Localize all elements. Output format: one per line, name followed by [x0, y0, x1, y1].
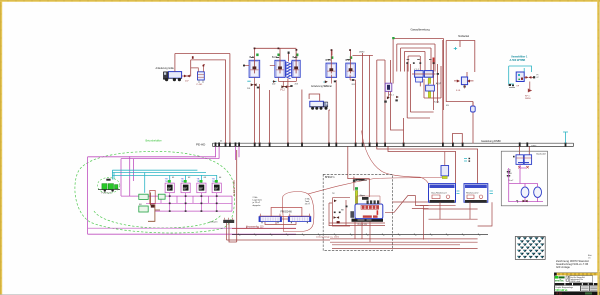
site boundary line black — [232, 233, 488, 235]
heating lines bottom — [227, 222, 478, 249]
BHKW small fittings — [334, 200, 348, 224]
revision cells — [581, 286, 590, 292]
pipe truck TK1 fill line — [175, 54, 230, 77]
CHP engine M1 — [350, 180, 383, 222]
BHKW internal loop — [329, 198, 385, 226]
bottom page line — [0, 293, 600, 295]
right edge small text — [588, 254, 592, 259]
svg-text:Anlieferung Substrat: Anlieferung Substrat — [311, 85, 332, 88]
page edge ruler right — [597, 0, 599, 295]
gas storage small valves — [516, 200, 528, 203]
nested gas loop piping — [391, 39, 444, 131]
gas balloon G1 — [521, 187, 529, 198]
svg-text:Leitungslänge ca. 110m: Leitungslänge ca. 110m — [316, 236, 339, 239]
dark data row — [555, 283, 565, 285]
gas storage tanks top — [516, 155, 532, 169]
exhaust heat exchanger — [355, 191, 357, 204]
svg-text:Heizkessel 2: Heizkessel 2 — [466, 192, 479, 194]
svg-text:V-12: V-12 — [280, 89, 285, 91]
address cell — [570, 276, 593, 283]
T1 bottom fittings — [247, 78, 259, 89]
tank interconnect pipe — [265, 219, 296, 225]
cyan tick flare — [454, 47, 457, 50]
cyan supply lines — [112, 170, 216, 193]
storage tank TL1 — [259, 214, 282, 224]
logo cell — [555, 276, 558, 279]
dosing unit row labels — [172, 177, 222, 179]
vessel B1 (unloading filter) — [191, 65, 205, 86]
bottom black bar — [554, 292, 600, 295]
svg-text:Kond.: Kond. — [434, 102, 440, 104]
project cell — [555, 286, 580, 292]
magenta distribution wiring — [121, 193, 232, 211]
dosing unit D2 — [181, 183, 190, 193]
page edge ruler top — [0, 0, 600, 2]
gas storage magenta piping — [509, 164, 543, 201]
red boundary extension to BHKW — [308, 178, 443, 195]
label row TB — [165, 178, 215, 183]
label Umweltfilter — [510, 56, 529, 62]
svg-text:25 m³: 25 m³ — [305, 203, 311, 206]
brown discharge pipe — [148, 193, 160, 222]
riser to Sammelschacht — [229, 150, 237, 242]
svg-text:2 Stk.: 2 Stk. — [253, 196, 259, 199]
svg-text:Substrat DN65: Substrat DN65 — [233, 180, 236, 196]
dosing unit green caps — [168, 180, 218, 183]
cyan sensor ticks boilers — [457, 191, 493, 194]
activated carbon filter F2 — [426, 78, 442, 98]
svg-text:2 Stk.: 2 Stk. — [305, 197, 311, 200]
pipe to flare — [444, 39, 475, 111]
svg-text:DN80: DN80 — [359, 52, 365, 54]
svg-text:Gasleitung DN80: Gasleitung DN80 — [481, 139, 501, 143]
svg-text:GIF Anlage: GIF Anlage — [556, 265, 570, 269]
condensate pot — [471, 102, 476, 113]
pipes below bus right — [377, 146, 530, 183]
feed hopper G1 — [139, 194, 148, 212]
svg-text:KF 1: KF 1 — [525, 95, 530, 97]
svg-text:Anlieferung Gülle: Anlieferung Gülle — [156, 67, 175, 70]
red property boundary cloud — [282, 192, 314, 232]
reactor tank T3 — [292, 50, 300, 77]
green dashed boundary inner — [94, 211, 221, 228]
svg-text:BF: BF — [199, 186, 203, 190]
gas storage fittings — [507, 156, 515, 177]
cyan marks mid right — [464, 159, 467, 162]
reactor tank T4 — [326, 50, 337, 77]
svg-text:F-01: F-01 — [456, 90, 461, 92]
svg-text:P 2.1: P 2.1 — [389, 94, 395, 96]
svg-text:Betonbehälter: Betonbehälter — [146, 138, 162, 142]
micro labels scatter — [220, 52, 449, 143]
main gas bus header — [213, 143, 574, 146]
pipe gas feed to engine — [348, 146, 370, 197]
gas train dark bar — [355, 179, 364, 181]
pipe risers from tank row to bus — [226, 40, 474, 143]
gas cooler double vessel U1 — [412, 71, 436, 82]
T5 bottom fittings — [350, 75, 356, 83]
flare unit A1 — [454, 77, 474, 92]
bus tick fittings — [215, 142, 567, 146]
reactor tank T5 — [346, 50, 356, 77]
svg-text:Gasfackel: Gasfackel — [536, 153, 546, 155]
gas blower P2 — [384, 83, 399, 103]
svg-text:BF: BF — [167, 186, 171, 190]
svg-text:Abwasserltg. 110: Abwasserltg. 110 — [246, 226, 264, 229]
T1 side nozzle — [243, 65, 249, 67]
top header pipe over T4 T5 — [332, 50, 373, 56]
dosing unit D4 — [212, 183, 221, 193]
red unit in biozone — [150, 190, 155, 207]
svg-text:P-101: P-101 — [197, 84, 204, 86]
svg-text:DN65: DN65 — [531, 146, 537, 148]
red hose curve from bus area — [362, 131, 429, 184]
svg-text:07: 07 — [537, 77, 539, 79]
reactor tank T2 — [272, 48, 285, 77]
storage tank TL2 — [288, 214, 311, 224]
pipe TK2 unloading — [309, 94, 330, 110]
reactor tank T1 — [249, 48, 260, 77]
valve at TK1 outlet — [184, 56, 194, 77]
umweltfilter piping cyan — [509, 66, 532, 84]
magenta enclosure rect — [88, 157, 296, 234]
labels below bus right — [531, 146, 537, 148]
svg-text:BHKW 1: BHKW 1 — [325, 176, 335, 179]
drain line to sewer — [232, 227, 296, 229]
green dashed boundary outer — [75, 151, 235, 233]
planting field symbol box — [515, 237, 545, 260]
T2 T3 bottom manifold — [273, 77, 297, 91]
svg-text:Notfackel: Notfackel — [458, 34, 469, 38]
tanker truck TK2 — [310, 85, 333, 110]
svg-text:G 1 / 250 kW: G 1 / 250 kW — [354, 180, 368, 182]
svg-text:1/1: 1/1 — [588, 257, 591, 259]
svg-text:PSH: PSH — [508, 173, 513, 175]
magenta drops from bus — [121, 146, 239, 196]
right ruler over title block — [597, 271, 599, 295]
riser top fittings — [254, 48, 351, 51]
svg-text:doppelw.: doppelw. — [253, 205, 262, 207]
svg-text:BF: BF — [183, 186, 187, 190]
svg-text:BF: BF — [214, 186, 218, 190]
T2 side nozzle — [270, 65, 275, 67]
title block — [554, 273, 600, 295]
pump station cluster — [97, 178, 120, 195]
cyan drop to bus — [563, 132, 568, 143]
svg-text:P-21 P-22: P-21 P-22 — [102, 193, 112, 195]
note text left of tanks — [252, 196, 263, 207]
planting field cyan accents — [518, 238, 543, 257]
svg-text:49393 Lohne: 49393 Lohne — [570, 281, 580, 283]
svg-text:Abgas: Abgas — [360, 194, 366, 197]
svg-text:enviTec: enviTec — [555, 280, 564, 283]
red stepped supply line — [385, 196, 429, 213]
gas treatment small unit V1 — [441, 152, 449, 179]
feed hopper G2 — [158, 194, 165, 199]
dosing unit D1 — [165, 183, 174, 193]
top header pipe over T1 T2 T3 — [255, 47, 297, 49]
svg-text:A-500 WT/BB: A-500 WT/BB — [510, 59, 526, 62]
svg-text:500 kW el.: 500 kW el. — [555, 288, 568, 292]
note text right of tanks — [305, 197, 311, 205]
Frischwasser box — [271, 208, 302, 217]
gas boiler K1 — [429, 184, 456, 203]
T4 bottom fittings — [323, 75, 336, 84]
BHKW labels small — [332, 193, 367, 226]
gas boiler K2 — [464, 184, 488, 203]
gas storage labels — [508, 170, 514, 182]
boiler piping — [420, 202, 492, 248]
svg-text:DN50: DN50 — [525, 98, 531, 100]
gas balloon G2 — [534, 187, 542, 198]
svg-text:V 1.2: V 1.2 — [414, 69, 420, 71]
svg-text:FRISCHW.: FRISCHW. — [281, 211, 293, 214]
dosing unit D3 — [197, 183, 206, 193]
green vent tick — [392, 37, 394, 39]
gas storage frame — [501, 151, 547, 206]
page edge ruler left — [0, 0, 2, 295]
svg-text:Gasaufbereitung: Gasaufbereitung — [411, 27, 431, 31]
drawing note text — [556, 259, 589, 269]
svg-text:Gas-Heizkessel: Gas-Heizkessel — [431, 192, 447, 194]
folding ruler strip — [557, 273, 600, 276]
svg-text:je 25 m³: je 25 m³ — [252, 201, 261, 204]
fitting dots on wiring — [169, 195, 218, 212]
small fittings top right loops — [406, 62, 439, 75]
tanker truck TK1 — [156, 67, 183, 81]
svg-text:PE-HD: PE-HD — [196, 143, 206, 147]
planting field triangles — [517, 237, 544, 258]
umweltfilter unit — [509, 72, 539, 100]
heat exchanger coil W1 — [286, 52, 292, 79]
svg-text:Lagertank: Lagertank — [253, 199, 263, 202]
BHKW container frame — [323, 174, 392, 250]
red relief element — [433, 58, 435, 65]
Sammelschacht pit — [210, 218, 235, 224]
svg-text:AK-F: AK-F — [436, 82, 442, 85]
svg-text:Schacht: Schacht — [210, 221, 218, 224]
